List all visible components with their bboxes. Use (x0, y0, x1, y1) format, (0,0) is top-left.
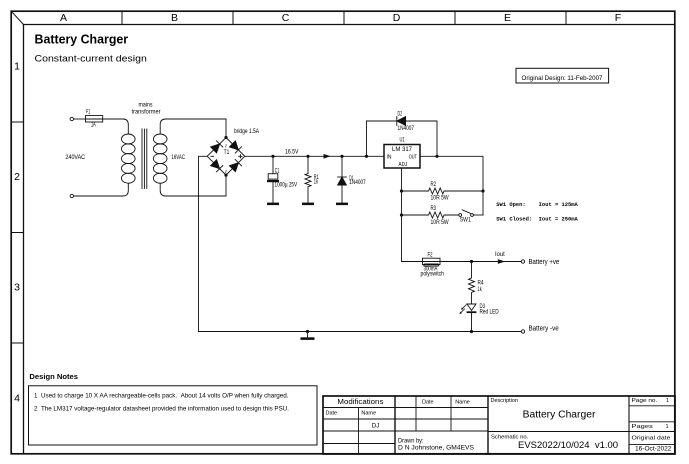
node: D3 / 0V rail (470, 330, 473, 333)
bridge diode upper-right (229, 141, 238, 150)
wire: ADJ to F2 (402, 261, 423, 263)
svg-text:Drawn by:: Drawn by: (398, 437, 424, 444)
node: ADJ / R2 (400, 189, 403, 192)
svg-text:Description: Description (491, 398, 519, 404)
resistor R1 (305, 156, 319, 202)
wire: U1 OUT rail (420, 156, 483, 215)
svg-text:3: 3 (14, 282, 20, 294)
svg-text:D N Johnstone, GM4EVS: D N Johnstone, GM4EVS (398, 444, 474, 451)
svg-text:SW1: SW1 (460, 217, 471, 224)
node: D1 top (340, 155, 343, 158)
node: OUT / D2 (435, 155, 438, 158)
svg-text:SW1 Closed: Iout = 250mA: SW1 Closed: Iout = 250mA (496, 216, 578, 223)
svg-text:10R 5W: 10R 5W (431, 219, 449, 226)
svg-text:E: E (504, 12, 511, 24)
svg-text:10R 5W: 10R 5W (431, 195, 449, 202)
svg-text:1: 1 (666, 424, 669, 430)
svg-text:F1: F1 (86, 109, 91, 116)
svg-text:F2: F2 (428, 252, 433, 259)
svg-text:16-Oct-2022: 16-Oct-2022 (635, 447, 672, 453)
LED D3 (459, 303, 499, 332)
bridge diode lower-left (211, 160, 220, 169)
svg-text:Battery Charger: Battery Charger (523, 410, 596, 421)
svg-text:C: C (282, 12, 290, 24)
terminal: mains neutral (70, 194, 73, 197)
svg-text:Constant-current design: Constant-current design (35, 54, 147, 65)
svg-text:1 Used to charge 10 X AA rech: 1 Used to charge 10 X AA rechargeable-ce… (34, 393, 289, 400)
node: ADJ / R3 (400, 213, 403, 216)
svg-text:1: 1 (666, 398, 669, 404)
svg-text:ADJ: ADJ (399, 162, 408, 168)
svg-text:1k: 1k (478, 286, 483, 293)
node: bridge top (224, 136, 227, 139)
svg-text:EVS2022/10/024 v1.00: EVS2022/10/024 v1.00 (518, 440, 618, 451)
svg-text:Battery -ve: Battery -ve (529, 326, 559, 333)
transformer core (142, 129, 147, 189)
svg-text:Date: Date (326, 411, 338, 417)
original design note box (516, 68, 609, 83)
resistor R3 (402, 205, 460, 226)
svg-text:C1: C1 (275, 167, 280, 174)
node: D2 left (365, 155, 368, 158)
diode D1 (338, 156, 367, 202)
svg-text:Name: Name (361, 411, 376, 417)
svg-text:Name: Name (455, 400, 470, 406)
svg-text:~: ~ (222, 169, 229, 173)
svg-text:Original date: Original date (632, 436, 671, 442)
terminal: mains live (70, 117, 73, 120)
svg-text:IN: IN (387, 154, 392, 160)
svg-text:Date: Date (422, 400, 434, 406)
svg-text:LM 317: LM 317 (392, 146, 413, 153)
svg-text:B: B (171, 12, 178, 24)
svg-text:1k: 1k (314, 179, 319, 186)
svg-text:F: F (615, 12, 621, 24)
svg-text:D2: D2 (398, 110, 403, 117)
svg-text:Modifications: Modifications (337, 399, 384, 406)
svg-text:2 The LM317 voltage-regulator: 2 The LM317 voltage-regulator datasheet … (34, 406, 289, 413)
svg-text:polyswitch: polyswitch (421, 271, 445, 278)
svg-text:mains: mains (139, 102, 153, 109)
svg-text:Battery Charger: Battery Charger (35, 33, 129, 47)
fuse F1 (86, 109, 103, 129)
svg-text:SW1 Open: Iout = 125mA: SW1 Open: Iout = 125mA (496, 201, 578, 208)
svg-text:1A: 1A (91, 122, 96, 129)
svg-text:T1: T1 (224, 149, 230, 156)
wire: D2 branch left (367, 121, 397, 156)
wire: fuse to transformer primary (103, 119, 129, 134)
wire: secondary top to bridge (160, 119, 226, 138)
svg-text:16.5V: 16.5V (285, 149, 299, 156)
node: ground on 0V rail (306, 330, 309, 333)
ground symbol (301, 332, 315, 340)
svg-text:16VAC: 16VAC (171, 154, 185, 161)
wire: positive rail bridge to U1 IN (245, 155, 384, 157)
wire: bridge minus down to 0V rail (199, 156, 208, 331)
current arrow on rail (324, 155, 329, 158)
node: OUT / R2 (481, 189, 484, 192)
title block (323, 396, 675, 454)
svg-text:U1: U1 (400, 137, 406, 144)
svg-text:R2: R2 (431, 181, 437, 188)
wire: U1 ADJ down (401, 168, 403, 262)
svg-text:Original Design: 11-Feb-2007: Original Design: 11-Feb-2007 (522, 75, 604, 82)
svg-text:Page no.: Page no. (632, 398, 658, 404)
node: C1 top (271, 155, 274, 158)
regulator U1 LM317 (384, 137, 420, 169)
wire: secondary bottom to bridge (160, 175, 226, 196)
bridge diode upper-left (211, 144, 220, 153)
svg-text:A: A (60, 12, 67, 24)
wire: D2 branch right (406, 121, 437, 156)
resistor R2 (402, 181, 484, 202)
bridge rectifier T1 (207, 138, 245, 176)
node: R1 top (306, 155, 309, 158)
svg-text:DJ: DJ (372, 422, 380, 429)
svg-text:2: 2 (14, 171, 20, 183)
design notes (29, 372, 318, 445)
ground: D1 (336, 203, 348, 206)
transformer primary winding (122, 134, 136, 183)
svg-text:1N4007: 1N4007 (349, 179, 366, 186)
svg-text:1: 1 (14, 60, 20, 72)
resistor R4 (469, 262, 484, 305)
terminal: Battery -ve (521, 330, 524, 333)
svg-text:D: D (393, 12, 401, 24)
node: bridge bottom (224, 174, 227, 177)
terminal: Battery +ve (521, 260, 524, 263)
svg-text:Battery +ve: Battery +ve (529, 259, 560, 266)
svg-text:1000µ 25V: 1000µ 25V (275, 181, 298, 188)
switch SW1 (459, 210, 483, 224)
svg-text:Red LED: Red LED (480, 309, 500, 316)
wire: primary bottom lead (74, 183, 129, 196)
svg-text:4: 4 (14, 392, 20, 404)
wire: live to fuse (74, 118, 86, 120)
svg-text:Design Notes: Design Notes (29, 372, 78, 381)
capacitor C1 (267, 156, 298, 202)
diode D2 (397, 110, 415, 132)
wire: F2 to battery positive (440, 261, 521, 263)
transformer secondary winding (153, 134, 167, 183)
ground: R1 (302, 203, 314, 206)
svg-text:bridge 1.5A: bridge 1.5A (234, 128, 260, 135)
svg-text:R3: R3 (431, 205, 437, 212)
fuse F2 polyswitch (421, 252, 445, 278)
svg-text:OUT: OUT (409, 154, 418, 160)
svg-text:Pages: Pages (632, 424, 654, 430)
bridge diode lower-right (229, 163, 238, 172)
svg-text:transformer: transformer (132, 109, 161, 116)
svg-text:Iout: Iout (495, 251, 505, 258)
svg-text:240VAC: 240VAC (66, 154, 86, 161)
ground: C1 (267, 203, 279, 206)
wire: 0V bottom rail (199, 331, 522, 333)
svg-text:1N4007: 1N4007 (398, 125, 415, 132)
node: Iout / R4 (470, 260, 473, 263)
